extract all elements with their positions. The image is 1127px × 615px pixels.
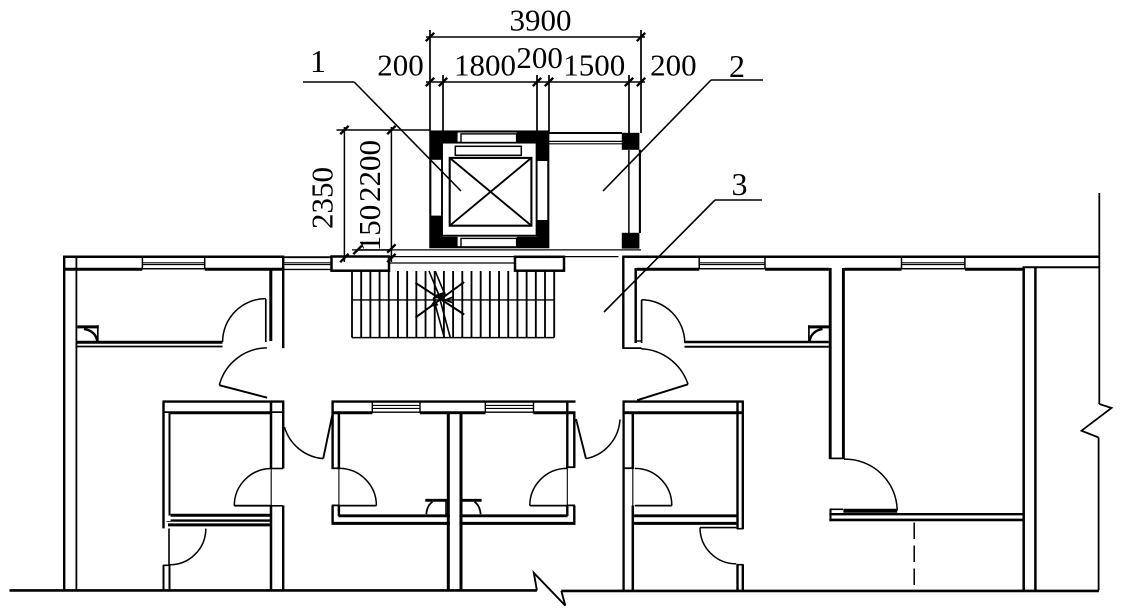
- elevator shaft 1: door sill rectangle: [455, 146, 521, 155]
- window: right-top room window 1: [699, 262, 765, 264]
- door: room D door (leaf): [635, 505, 672, 507]
- wall: rooms A/B top wall: [163, 400, 285, 402]
- door: corridor door near room D (arc): [641, 349, 688, 385]
- wall: partition between upper-left room and stair hall (x 271-283): [270, 257, 284, 348]
- door: corridor swing door at stair hall (arc): [219, 348, 267, 385]
- wall: room D right wall / D2 right wall: [736, 414, 744, 590]
- wire: corridor wall line under shafts: [389, 256, 517, 258]
- stairs: arrowhead (up flight): [445, 297, 453, 303]
- wall: room C right wall: [566, 402, 568, 468]
- stairs: bottom edge: [352, 337, 554, 339]
- elevator shaft 1: top door infill: [461, 134, 517, 143]
- door: room D door (arc): [635, 468, 672, 505]
- dashed line below room E: [913, 523, 915, 591]
- wall: room A bottom wall (three lines): [167, 514, 272, 517]
- wall: room A right wall / A2 right wall: [270, 413, 285, 590]
- wire: door jamb line room D: [632, 469, 634, 506]
- window: room E window in top wall: [902, 262, 965, 264]
- window: corridor glazing left of stair hall (x 284-331): [284, 256, 331, 258]
- door: lobby A-B door (leaf): [323, 416, 332, 459]
- door: room B door (leaf): [339, 505, 376, 507]
- wall: right outer wall of building: [1023, 267, 1038, 591]
- dimension: extension line at 150 split: [358, 249, 392, 251]
- door: A2 room door (arc): [170, 529, 206, 565]
- svg-text:150: 150: [352, 205, 387, 252]
- door: right-top room door (arc): [642, 300, 685, 343]
- break symbol in ground line: [534, 573, 566, 606]
- wall: room B left wall: [331, 402, 333, 469]
- stair hall side wall piece (left): [332, 257, 390, 271]
- door: D2 room door (leaf): [700, 527, 736, 529]
- door: D2 room door (arc): [700, 528, 736, 564]
- window: room C window: [485, 404, 533, 406]
- door: corridor door near room D (leaf): [637, 384, 688, 400]
- shaft 2: corner column bottom-right: [622, 233, 640, 249]
- fold symbol at right-top room: [808, 325, 830, 328]
- wall: room E left wall: [832, 267, 842, 458]
- elevator shaft 1: corner column top-right: [517, 131, 549, 143]
- wall: left outer wall of building: [63, 256, 65, 590]
- stairs: break line (double): [429, 271, 444, 337]
- wall: upper-left room bottom wall: [76, 341, 222, 344]
- window: upper-left room window in top wall: [142, 262, 204, 264]
- door: lobby A-B door (arc): [285, 427, 324, 459]
- elevator car with X: [450, 158, 532, 226]
- wall: right-top room bottom wall: [685, 341, 829, 344]
- shaft 2: corner column top-right: [622, 133, 640, 150]
- fold symbol at room B bottom: [425, 499, 447, 502]
- elevator shaft 1: corner column bottom-left: [430, 216, 443, 248]
- wall: room A left wall: [162, 413, 170, 521]
- svg-text:200: 200: [650, 48, 697, 83]
- door: room C door (leaf): [530, 505, 567, 507]
- door: room A door (arc): [234, 469, 271, 506]
- shaft 2: top band: [549, 132, 622, 134]
- wire: door jamb line room C: [566, 468, 568, 506]
- wall: A2 left wall stub: [163, 565, 165, 590]
- wire: door jamb line room B: [338, 469, 340, 506]
- dimension: vertical dim line 2350: [343, 127, 345, 262]
- dimension line: 200/1800/200/1500/200: [426, 81, 645, 83]
- dimension: vertical dim line 2200/150: [390, 127, 392, 262]
- dimension: extension verticals: [429, 30, 431, 131]
- elevator shaft 1: bottom door infill: [461, 238, 517, 247]
- shaft 2: right wall: [628, 150, 630, 233]
- door: upper-left room door (swing arc): [223, 299, 266, 342]
- door: A2 room door (leaf): [168, 529, 170, 565]
- door: room E door (arc): [844, 459, 897, 510]
- svg-text:2: 2: [729, 48, 745, 84]
- stairs: middle landing line: [352, 299, 554, 301]
- stairs: treads: [351, 271, 353, 338]
- svg-text:2200: 2200: [352, 140, 387, 202]
- dimension line: 3900: [426, 36, 645, 38]
- leader line for label 2: [711, 79, 763, 81]
- dimension: extension line at top: [337, 129, 431, 131]
- elevator shaft 1: corner column bottom-right: [517, 237, 549, 248]
- svg-text:1500: 1500: [563, 48, 625, 83]
- wall: main corridor top wall, right section: [622, 256, 1099, 259]
- wall: partition T-stem between rooms B and C: [450, 414, 460, 590]
- wall: wall between right-top room and corridor (x 622-637): [622, 258, 637, 348]
- wall: rooms B/C bottom wall: [339, 514, 568, 517]
- svg-text:200: 200: [516, 40, 563, 75]
- door: room E door (leaf): [843, 509, 897, 513]
- door: room C door (arc): [530, 468, 567, 505]
- svg-text:1: 1: [310, 43, 326, 79]
- ground line (right part): [561, 590, 1099, 593]
- svg-text:3900: 3900: [510, 3, 572, 38]
- elevator shaft 1: corner column top-left: [430, 131, 458, 143]
- door: lobby C-D door (leaf): [576, 419, 586, 459]
- section continuation line at far right with break: [1098, 193, 1100, 404]
- wire: door jamb line room A: [270, 469, 272, 506]
- stairs: direction line X (arm 1): [416, 283, 465, 315]
- wall: main corridor top wall, left section: [63, 256, 284, 259]
- svg-text:2350: 2350: [305, 167, 340, 229]
- stairs: arrowhead (down flight): [430, 300, 439, 308]
- wall: room D top wall: [623, 400, 744, 402]
- door: right-top room door (leaf): [641, 300, 643, 343]
- svg-text:3: 3: [732, 166, 748, 202]
- elevator shaft 1: outer wall outline: [430, 132, 548, 248]
- stair hall side wall piece (right): [515, 257, 564, 271]
- leader line for label 3: [715, 199, 762, 201]
- fold symbol at upper-left room: [77, 325, 98, 328]
- elevator shaft 1: inner wall outline: [442, 143, 537, 236]
- wall: room E bottom wall: [829, 513, 1022, 515]
- door: corridor swing door at stair hall (leaf): [219, 385, 267, 398]
- stairs: bold middle dash of break: [435, 293, 445, 297]
- door: upper-left room door (leaf): [265, 299, 267, 342]
- stairs: direction line X (arm 2): [416, 282, 465, 318]
- door: room B door (arc): [339, 468, 376, 505]
- leader line for label 1: [303, 81, 354, 83]
- door: room A door (leaf): [234, 505, 271, 507]
- svg-text:200: 200: [377, 48, 424, 83]
- ground line (left part): [10, 589, 537, 592]
- wire: landing edge line: [352, 249, 641, 251]
- window: room B window: [372, 404, 420, 406]
- fold symbol at room C bottom: [460, 499, 481, 502]
- wall: room D left wall / D2 left wall: [622, 414, 634, 590]
- door: lobby C-D door (arc): [586, 420, 620, 459]
- svg-text:1800: 1800: [454, 48, 516, 83]
- wall: room D bottom wall: [623, 514, 744, 517]
